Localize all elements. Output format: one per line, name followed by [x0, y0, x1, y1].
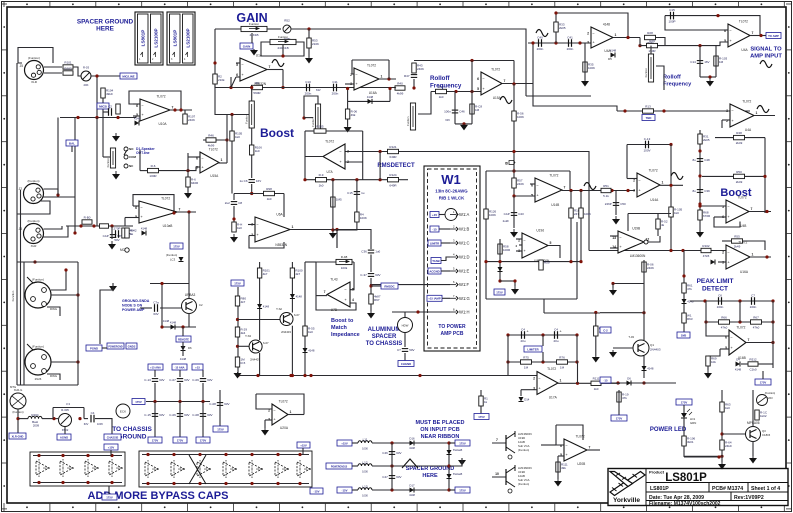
svg-text:-15V: -15V [342, 488, 348, 492]
capacitor C-rail2-2 [192, 413, 212, 417]
svg-text:CHGND: CHGND [401, 362, 411, 366]
junction 740,301 [738, 299, 741, 302]
jack J7 tip contact [27, 344, 37, 350]
ground C46 [460, 124, 468, 130]
svg-text:+15: +15 [195, 365, 200, 369]
wire j7 out [51, 361, 78, 363]
wire c14 [699, 46, 701, 77]
wire GAIN input [215, 28, 241, 30]
ground R112 [554, 479, 562, 487]
pointer arrow spacer [402, 459, 418, 468]
svg-text:1M5: 1M5 [336, 198, 342, 202]
junction grpA top 2 [86, 454, 89, 457]
wire U2A fb loop [665, 16, 760, 36]
junction 449,443 [447, 441, 450, 444]
wire x362 riser [362, 131, 364, 180]
wire x722 [721, 390, 723, 462]
wire x162 [161, 284, 163, 328]
svg-text:-15 ANA: -15 ANA [175, 365, 185, 369]
svg-text:SPACER GROUND: SPACER GROUND [406, 466, 455, 472]
svg-text:4k7: 4k7 [241, 300, 246, 304]
wire fb tap [471, 61, 473, 92]
svg-text:100K: 100K [588, 66, 595, 70]
svg-text:(Funtion): (Funtion) [27, 179, 39, 183]
wire RV3 loop [261, 42, 304, 56]
svg-text:R-5: R-5 [241, 361, 246, 365]
wire r111b right [601, 382, 620, 384]
wire zt [449, 442, 455, 444]
svg-text:1: 1 [292, 225, 294, 229]
net label C-12 [600, 377, 611, 383]
svg-text:2k49: 2k49 [736, 180, 743, 184]
junction U2A out [759, 34, 762, 37]
resistor R-42 [125, 228, 137, 238]
junction 556,13 [554, 11, 557, 14]
svg-text:Frequency: Frequency [430, 83, 462, 90]
junction 684,276 [682, 274, 685, 277]
op-amp U11A [135, 197, 180, 228]
svg-text:U14B: U14B [551, 203, 559, 207]
wire x292 chain [291, 262, 293, 313]
svg-text:7: 7 [324, 290, 326, 294]
wire U1B fb top [352, 59, 389, 61]
junction u16b out [771, 341, 774, 344]
svg-text:(Funtion): (Funtion) [166, 253, 177, 257]
svg-text:63V: 63V [445, 118, 450, 122]
svg-text:Rolloff: Rolloff [663, 75, 681, 81]
svg-text:63V: 63V [207, 413, 212, 417]
svg-text:J2: J2 [19, 187, 23, 191]
wire j6 out [51, 294, 78, 296]
wire drop x571 [570, 191, 572, 262]
resistor R112 [556, 462, 568, 472]
svg-text:175V: 175V [459, 488, 466, 492]
wire q5 down [291, 326, 293, 376]
net label 175V zener top [455, 440, 470, 446]
svg-text:63V: 63V [207, 378, 212, 382]
svg-text:44K1B: 44K1B [249, 33, 258, 37]
XLR connector J5 [25, 56, 44, 84]
wire y283b [150, 283, 189, 285]
svg-text:2: 2 [633, 178, 635, 182]
wire U11A out [177, 211, 196, 213]
junction grpA bottom 2 [86, 481, 89, 484]
svg-text:ECK: ECK [120, 410, 126, 414]
svg-text:U16B: U16B [282, 467, 289, 471]
resistor R43 [412, 63, 424, 73]
capacitor C36b [361, 250, 380, 254]
wire c46 bottom [455, 123, 472, 125]
capacitor C-0 [113, 226, 120, 242]
svg-text:Sheet 1 of 4: Sheet 1 of 4 [751, 486, 780, 492]
zener ZD2 [447, 474, 452, 479]
svg-text:W1: W1 [441, 172, 461, 187]
svg-text:U4A: U4A [741, 48, 748, 52]
wire r103 [715, 46, 717, 77]
ground x700 [696, 230, 704, 238]
wire L12 r [372, 465, 449, 467]
wire limiter bot bus [508, 361, 577, 363]
junction 581,190 [579, 189, 582, 192]
wire RV1 to VR2 [267, 28, 281, 30]
junction u13a out [669, 184, 672, 187]
capacitor C45 [404, 74, 417, 78]
svg-text:C1k0: C1k0 [749, 368, 756, 372]
resistor R-BAL [82, 215, 92, 224]
junction 188,170 [186, 169, 189, 172]
wire c36 link [337, 230, 371, 250]
svg-text:Impedance: Impedance [331, 332, 360, 338]
svg-text:GROUND: GROUND [118, 434, 147, 441]
svg-text:ON INPUT PCB: ON INPUT PCB [420, 427, 459, 433]
wire rail 1 upper [179, 370, 181, 377]
net label GAIN [240, 43, 253, 49]
svg-text:4148: 4148 [163, 319, 170, 323]
junction 765,176 [763, 175, 766, 178]
wire u12 fb top [486, 170, 570, 172]
junction x58 J2 [56, 193, 59, 196]
svg-text:OUT.line: OUT.line [136, 151, 150, 155]
net label XLRGND [9, 433, 26, 439]
svg-text:100K: 100K [517, 115, 524, 119]
op-amp U7A [323, 140, 349, 174]
resistor R49 [316, 173, 327, 187]
wire u13b out [648, 236, 660, 242]
junction rail 2 [201, 400, 204, 403]
svg-text:4148: 4148 [735, 368, 742, 372]
junction 671,144 [669, 143, 672, 146]
svg-text:NO: NO [129, 147, 134, 151]
wire U1A in5 [236, 62, 240, 64]
wire j7 ring [47, 374, 60, 380]
wire u7b out [316, 295, 327, 297]
svg-text:R66: R66 [721, 315, 727, 319]
resistor R81 [235, 327, 247, 337]
wire y313 bus [600, 312, 644, 314]
wire grpA top [33, 455, 122, 457]
net label 175V-a [494, 289, 505, 295]
svg-text:C8: C8 [238, 201, 242, 205]
wire x333 [332, 180, 334, 230]
wire U11A in5 drop [124, 218, 126, 226]
svg-text:210k: 210k [218, 78, 225, 82]
wire J3 pin1 [44, 226, 63, 229]
junction U10A out b [179, 108, 182, 111]
junction 456,91 [454, 90, 457, 93]
wire r124 r [399, 179, 408, 181]
svg-text:U21A: U21A [43, 466, 50, 470]
wire u7b loop left [316, 262, 356, 310]
wire left bus 1 [16, 63, 18, 385]
svg-text:175V: 175V [173, 244, 180, 248]
jack J4 body [10, 388, 26, 414]
wire x215 vertical [214, 29, 216, 74]
net label -15 (W1:B) [430, 226, 439, 232]
svg-text:R50: R50 [736, 170, 742, 174]
wire r52c b [657, 229, 659, 236]
svg-text:(Funtion): (Funtion) [765, 391, 776, 395]
resistor R51 [601, 184, 611, 198]
net label -15V L13 [337, 487, 352, 493]
svg-text:5: 5 [477, 87, 479, 91]
junction 390,88 [388, 87, 391, 90]
wire u19a stub1 [516, 238, 522, 240]
diode D17 [409, 484, 415, 493]
wire W1:C [441, 242, 450, 244]
trim pot R-305 [59, 408, 72, 432]
op-amp bypass A1 (U21A) [36, 459, 50, 478]
svg-text:1: 1 [752, 253, 754, 257]
wire x700 chain [699, 130, 701, 232]
resistor R-m2 [122, 228, 134, 238]
diode D2 4148 [134, 117, 141, 126]
wire peak v1 [705, 301, 707, 322]
ground 613 [609, 288, 617, 296]
junction grpA top 3 [110, 454, 113, 457]
junction 238,319 [236, 318, 239, 321]
junction 740,322 [738, 320, 741, 323]
net label 175V-f [196, 437, 210, 443]
svg-text:4k7: 4k7 [295, 272, 300, 276]
svg-text:W1:H: W1:H [459, 310, 469, 315]
wire rail 2 upper [202, 370, 204, 377]
wire U11A feedback [133, 195, 174, 213]
wire r40 left [395, 87, 396, 90]
wire x684 vertical [683, 251, 685, 334]
svg-text:1M: 1M [719, 60, 724, 64]
junction 449,466 [447, 464, 450, 467]
wire J5 pin2 to R101 [44, 66, 62, 68]
svg-text:1k0: 1k0 [725, 406, 730, 410]
svg-text:Funtion: Funtion [311, 117, 315, 127]
wire limiter v2b [542, 352, 544, 362]
resistor R121 [388, 145, 399, 159]
svg-text:R46: R46 [208, 133, 214, 137]
junction 700,176 [698, 174, 701, 177]
wire cap NP [111, 226, 113, 239]
wire u6a out [290, 229, 340, 231]
junction 644,383 [642, 381, 645, 384]
svg-text:TL072: TL072 [279, 400, 288, 404]
diode D10 [257, 304, 269, 309]
svg-text:D16: D16 [409, 437, 415, 441]
net label 175V-b [231, 280, 244, 286]
svg-text:49k: 49k [561, 466, 566, 470]
svg-text:63V: 63V [224, 402, 229, 406]
resistor R124 [388, 173, 399, 187]
svg-text:U14B: U14B [230, 467, 237, 471]
svg-text:R75: R75 [523, 355, 529, 359]
capacitor C47 [382, 475, 401, 479]
wire u17a in3 drop [520, 390, 522, 396]
junction 78,295 [76, 293, 79, 296]
wire u15b pin3 row [140, 170, 147, 172]
svg-text:100n: 100n [750, 305, 757, 309]
svg-text:C2: C2 [199, 303, 203, 307]
ground below relay [112, 171, 120, 180]
jack J6 body [25, 278, 57, 312]
svg-text:LS801P: LS801P [141, 30, 146, 47]
wire x357b [333, 222, 357, 230]
wire x392 [391, 443, 393, 490]
svg-text:POWER LED: POWER LED [650, 427, 687, 433]
wire limiter v1 [507, 335, 509, 376]
svg-text:NODE S ON: NODE S ON [122, 304, 143, 308]
junction grpB bottom 2 [198, 482, 201, 485]
svg-text:R40: R40 [397, 81, 403, 85]
svg-text:C-37: C-37 [360, 273, 367, 277]
svg-text:VR3: VR3 [767, 396, 773, 400]
wire u4a2 out [754, 115, 775, 117]
wire u13a out [660, 184, 683, 186]
ground x595 [592, 356, 600, 363]
svg-text:REMOTE: REMOTE [178, 337, 189, 341]
svg-text:175V: 175V [234, 281, 241, 285]
junction grpB top 2 [198, 453, 201, 456]
svg-text:10: 10 [495, 472, 499, 476]
wire x449 zeners [448, 443, 450, 490]
svg-text:U15B: U15B [256, 467, 263, 471]
svg-text:MIC/LINE: MIC/LINE [122, 74, 134, 78]
wire x671 drop [670, 145, 672, 251]
svg-text:3: 3 [268, 417, 270, 421]
svg-text:Function: Function [11, 290, 15, 301]
wire r33 top [555, 13, 557, 22]
svg-text:AGND: AGND [60, 435, 68, 439]
svg-text:C14: C14 [690, 60, 696, 64]
wire rail 2 mid [202, 383, 204, 402]
wire x514 vertical [513, 84, 515, 196]
junction grpA top 0 [37, 454, 40, 457]
capacitor C15b [347, 191, 365, 195]
svg-text:C41: C41 [567, 35, 573, 39]
junction 514,151 [512, 150, 515, 153]
wire limiter top bus [508, 334, 577, 336]
wire u20a out [288, 414, 304, 416]
wire U2A in6 [724, 29, 728, 31]
svg-text:LS2100P: LS2100P [186, 28, 191, 47]
resistor R55 [732, 234, 743, 248]
junction 644,313 [642, 311, 645, 314]
capacitor C43 [504, 212, 524, 216]
svg-text:LIMITR: LIMITR [430, 241, 439, 245]
svg-text:Filename: M1374V100sch2002: Filename: M1374V100sch2002 [649, 501, 721, 507]
svg-text:Date: Tue Apr 28, 2009: Date: Tue Apr 28, 2009 [649, 495, 704, 501]
wire u7a pin2 [345, 161, 362, 163]
junction 227,140 [225, 138, 228, 141]
svg-text:7: 7 [269, 65, 271, 69]
svg-text:10k: 10k [711, 360, 716, 364]
svg-text:C?: C? [397, 348, 401, 352]
junction 508,362 [506, 360, 509, 363]
svg-text:C-13: C-13 [144, 378, 151, 382]
wire r9 top [347, 101, 349, 109]
resistor R102c [701, 244, 711, 258]
wire r55 r [743, 241, 765, 250]
op-amp U13B [612, 227, 649, 258]
svg-text:4148: 4148 [170, 321, 177, 325]
resistor R68 [698, 210, 711, 220]
svg-text:TL072: TL072 [367, 64, 376, 68]
sine marker u4a [757, 106, 769, 113]
svg-text:100R: 100R [503, 248, 511, 252]
svg-text:POWER AMP: POWER AMP [122, 308, 145, 312]
svg-text:SPACER GROUND: SPACER GROUND [77, 19, 134, 26]
junction 234,219 [232, 217, 235, 220]
wire y418 bus [18, 418, 28, 420]
wire u17a in3 [521, 389, 537, 391]
svg-text:T-03: T-03 [628, 335, 634, 339]
ground x238b [234, 372, 242, 379]
svg-text:100K: 100K [360, 216, 367, 220]
svg-text:+15V: +15V [108, 445, 115, 449]
svg-text:(Funtion): (Funtion) [32, 278, 44, 282]
capacitor C8 [225, 201, 243, 205]
svg-text:63V: 63V [375, 273, 380, 277]
wire top bus to corner [330, 29, 526, 96]
junction 514,196 [512, 194, 515, 197]
svg-text:TO POWER: TO POWER [438, 324, 466, 330]
svg-text:R98: R98 [266, 187, 272, 191]
junction grpB bottom 5 [276, 482, 279, 485]
net label 175V mute [170, 243, 183, 249]
junction 683,250 [681, 249, 684, 252]
transistor Q3 [746, 427, 761, 442]
svg-text:1: 1 [560, 379, 562, 383]
svg-text:LM13600N: LM13600N [630, 254, 646, 258]
wire u7a apex [305, 156, 323, 158]
net label -15ANA [172, 364, 187, 370]
svg-text:W1:E: W1:E [459, 269, 469, 274]
op-amp U1B [350, 64, 382, 95]
svg-text:(Funtion): (Funtion) [28, 56, 40, 60]
wire u14c in3 [718, 261, 726, 263]
svg-text:1: 1 [615, 33, 617, 37]
junction 292,375 [291, 374, 294, 377]
net label C-22 [600, 327, 611, 333]
svg-text:RMSDC: RMSDC [384, 284, 394, 288]
wire x252 b [251, 184, 253, 194]
capacitor C51 [520, 327, 529, 343]
ground R9 [344, 126, 352, 133]
wire x380 link [379, 152, 381, 180]
wire r97 [370, 304, 372, 311]
svg-text:R-6: R-6 [151, 164, 156, 168]
ground R97 [367, 311, 375, 319]
diode D7 [642, 366, 654, 371]
svg-text:C-07: C-07 [169, 378, 176, 382]
wire u15b stub1 [196, 156, 200, 158]
net label PGND [86, 345, 102, 351]
junction rail 0 [153, 400, 156, 403]
svg-text:C39: C39 [704, 189, 710, 193]
wire mid bus x58 [57, 118, 59, 196]
svg-text:C11: C11 [332, 80, 338, 84]
wire pot2 wiper [656, 66, 664, 90]
junction 215,63 [213, 61, 216, 64]
resistor R110 [186, 177, 199, 187]
wire r112 [557, 456, 559, 479]
resistor R101c [355, 212, 367, 222]
junction grpB top 3 [224, 453, 227, 456]
junction u14b out [765, 210, 768, 213]
wire u6a out down [336, 230, 338, 249]
svg-text:C1815: C1815 [762, 433, 771, 437]
svg-text:175V: 175V [681, 400, 688, 404]
svg-text:R-03: R-03 [83, 66, 90, 70]
svg-text:Frequency: Frequency [663, 82, 692, 88]
svg-text:24k9: 24k9 [725, 444, 732, 448]
